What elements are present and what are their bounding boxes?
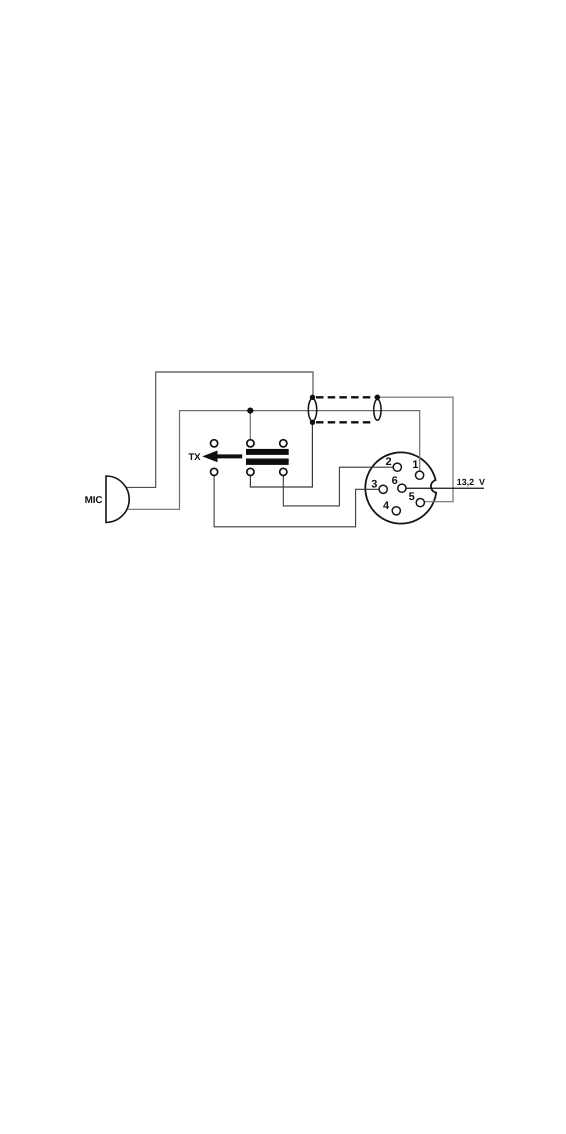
wire switch bottom-left contact to pin 3	[214, 475, 379, 527]
microphone MIC symbol	[106, 476, 129, 522]
svg-text:MIC: MIC	[85, 495, 103, 506]
node junction dot on inner conductor	[247, 408, 253, 414]
cable shield dashed line bottom	[316, 421, 374, 423]
wire MIC upper to shield top (outer loop)	[124, 372, 313, 487]
svg-text:3: 3	[371, 479, 377, 491]
cable shield dashed line top	[316, 396, 376, 398]
connector pin 1	[416, 471, 424, 479]
wire junction to switch top-middle contact	[249, 411, 251, 440]
svg-text:1: 1	[412, 459, 418, 471]
svg-text:6: 6	[392, 475, 398, 487]
switch contact top-middle	[247, 440, 254, 447]
svg-text:TX: TX	[188, 452, 201, 463]
wire switch bottom-right contact to pin 2	[283, 467, 393, 506]
connector pin 3	[379, 485, 387, 493]
junction dot shield right top	[375, 395, 380, 400]
switch contact top-left	[211, 440, 218, 447]
svg-text:2: 2	[386, 456, 392, 468]
svg-text:13,2 V: 13,2 V	[457, 477, 485, 487]
wire pin 6 to 13,2 V supply	[406, 487, 484, 489]
wire shield top to pin 5	[377, 397, 453, 502]
switch contact bottom-left	[211, 468, 218, 475]
junction dot shield left bottom	[310, 420, 315, 425]
cable shield right ellipse	[374, 399, 381, 420]
connector pin 6	[398, 484, 406, 492]
switch contact bottom-right	[280, 468, 287, 475]
cable shield left ellipse	[308, 399, 316, 422]
connector pin 2	[393, 463, 401, 471]
wire MIC lower / inner conductor to pin 1	[125, 411, 420, 510]
wire switch bottom-middle contact to shield bottom	[250, 422, 312, 487]
switch S1 contact bar bottom	[246, 459, 289, 465]
switch S1 contact bar top	[246, 449, 289, 455]
switch contact bottom-middle	[247, 468, 254, 475]
connector U1 body (6-pin DIN socket, circle with right-side notch)	[365, 452, 436, 523]
switch actuation arrow to TX	[202, 451, 242, 463]
connector pin 5	[416, 499, 424, 507]
svg-text:5: 5	[409, 491, 415, 503]
switch contact top-right	[280, 440, 287, 447]
connector pin 4	[392, 507, 400, 515]
junction dot shield left top	[310, 395, 315, 400]
svg-text:4: 4	[383, 500, 390, 512]
